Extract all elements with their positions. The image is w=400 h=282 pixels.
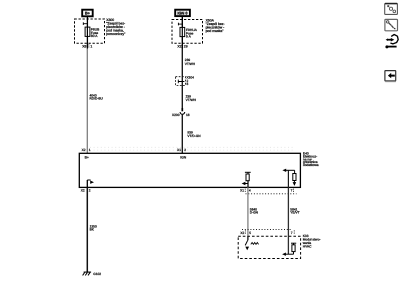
module E40 IGN internal label bbox=[180, 156, 186, 160]
svg-text:X304: X304 bbox=[186, 76, 194, 80]
svg-text:X1: X1 bbox=[177, 149, 181, 153]
svg-text:239: 239 bbox=[185, 59, 190, 63]
fuse F9HUA 5A bbox=[180, 27, 185, 36]
power tag IGN 0 bbox=[175, 10, 190, 16]
toolbar icon 2: dashed diagonal bbox=[385, 19, 398, 30]
svg-text:IGN: IGN bbox=[180, 156, 186, 160]
module E40 top pin X1-2 label bbox=[177, 149, 186, 153]
toolbar icon 3: jump arrow glyph bbox=[385, 35, 398, 49]
wire from B+ tag into fuse block bbox=[86, 17, 88, 27]
svg-text:2: 2 bbox=[89, 189, 91, 193]
svg-text:18: 18 bbox=[186, 114, 190, 118]
wire 4040 RD/D-BU bbox=[87, 49, 103, 154]
fuse block X300 dashed outline bbox=[75, 19, 105, 43]
inline connector X200 pin 18 bbox=[172, 108, 190, 153]
svg-text:BK: BK bbox=[90, 228, 94, 232]
svg-text:X2: X2 bbox=[81, 189, 85, 193]
power tag B+ bbox=[82, 10, 93, 17]
wire 5840 D-GN bbox=[248, 187, 258, 236]
ground G102 bbox=[83, 272, 102, 276]
svg-text:B+: B+ bbox=[85, 156, 89, 160]
internal ground arrow above pin X2-2 bbox=[87, 180, 94, 187]
svg-text:D-GN: D-GN bbox=[250, 211, 258, 215]
wire 239 VT/WH middle segment label bbox=[186, 95, 196, 102]
module E40 outline bbox=[79, 153, 300, 187]
svg-text:X8: X8 bbox=[82, 45, 86, 49]
svg-text:dodatkowa: dodatkowa bbox=[303, 164, 319, 168]
label X300 description bbox=[106, 18, 125, 36]
inline connector X304 dashed box bbox=[176, 77, 186, 111]
svg-text:K33: K33 bbox=[303, 234, 309, 238]
svg-text:7: 7 bbox=[291, 231, 293, 235]
fuse block X50A dashed outline bbox=[172, 20, 203, 44]
svg-text:B+: B+ bbox=[85, 11, 90, 15]
svg-text:IGN 0: IGN 0 bbox=[177, 11, 188, 15]
svg-text:2: 2 bbox=[184, 149, 186, 153]
toolbar icon 1: link nodes bbox=[385, 3, 398, 14]
wire out of X50A to X2 pin 29 bbox=[181, 37, 183, 49]
fuse F8UB value label bbox=[91, 28, 100, 38]
svg-text:Moduł stero-: Moduł stero- bbox=[303, 238, 321, 242]
svg-text:YE/VT: YE/VT bbox=[290, 211, 299, 215]
svg-text:5 A: 5 A bbox=[186, 35, 191, 39]
svg-text:7: 7 bbox=[291, 189, 293, 193]
connector X8 pin 1 label bbox=[82, 44, 92, 48]
connector X2 pin 29 label bbox=[177, 45, 187, 49]
svg-text:VT/WH: VT/WH bbox=[186, 98, 196, 102]
inline connector X304 labels bbox=[186, 76, 194, 86]
K33 internal switch with thermal element bbox=[245, 236, 258, 250]
svg-text:pomocniczy": pomocniczy" bbox=[106, 32, 125, 36]
connector terminal symbol in X50A bbox=[178, 23, 182, 26]
svg-text:VT/WH: VT/WH bbox=[185, 62, 195, 66]
module E40 top connector faint dotted pin lines bbox=[90, 147, 295, 150]
toolbar icon 4: back arrow button bbox=[385, 71, 396, 82]
svg-text:pod maska": pod maska" bbox=[206, 29, 224, 33]
connector terminal symbol in X300 bbox=[83, 22, 87, 25]
HVAC control module K33 dashed outline bbox=[238, 236, 300, 258]
svg-text:X2: X2 bbox=[240, 231, 244, 235]
module E40 bottom pin X2-2 label bbox=[81, 189, 91, 193]
fuse F9HUA value label bbox=[186, 28, 197, 38]
internal sensor interface left: resistor with arrow bbox=[242, 172, 251, 187]
wire 1350 BK to ground bbox=[87, 187, 97, 272]
svg-text:G102: G102 bbox=[93, 273, 101, 277]
wire 939 VT/D-GN label bbox=[187, 131, 200, 138]
svg-text:4: 4 bbox=[249, 189, 251, 193]
svg-text:5: 5 bbox=[249, 231, 251, 235]
svg-text:X200: X200 bbox=[172, 114, 180, 118]
svg-text:X1: X1 bbox=[240, 189, 244, 193]
svg-text:1: 1 bbox=[90, 45, 92, 49]
wire 5841 YE/VT bbox=[288, 187, 299, 254]
module E40 top pin X2-1 label bbox=[82, 149, 91, 153]
wire from IGN tag into fuse block bbox=[181, 17, 183, 28]
svg-text:X2: X2 bbox=[177, 45, 181, 49]
svg-text:29: 29 bbox=[184, 45, 188, 49]
module E40 B+ internal label bbox=[85, 156, 89, 160]
svg-text:HVAC: HVAC bbox=[303, 245, 312, 249]
svg-text:80 A: 80 A bbox=[91, 35, 98, 39]
svg-text:RD/D-BU: RD/D-BU bbox=[90, 97, 103, 101]
wire out of fuse box to X8 pin 1 bbox=[86, 36, 88, 48]
svg-text:VT/D-GN: VT/D-GN bbox=[187, 134, 200, 138]
svg-text:8: 8 bbox=[187, 83, 189, 87]
K33 description label bbox=[302, 234, 320, 248]
label X50A description bbox=[206, 19, 225, 33]
module E40 description label bbox=[303, 152, 319, 167]
wire 239 VT/WH upper segment bbox=[182, 49, 195, 77]
svg-text:1: 1 bbox=[89, 149, 91, 153]
internal sensor interface right: arrow and resistor to ground bbox=[282, 169, 296, 188]
svg-text:wania: wania bbox=[302, 242, 311, 246]
fuse F8UB 80A bbox=[85, 27, 90, 36]
K33 connector X2 dotted pin line bbox=[240, 229, 294, 234]
module E40 bottom connector X1 pin group dotted line bbox=[240, 189, 296, 194]
svg-text:X2: X2 bbox=[82, 149, 86, 153]
K33 internal resistor with arrow bbox=[282, 243, 296, 256]
